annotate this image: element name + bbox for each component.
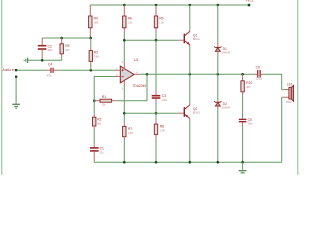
wire opamp Vminus column <box>123 86 125 123</box>
svg-text:C1: C1 <box>100 147 104 151</box>
svg-text:100k: 100k <box>94 23 100 25</box>
svg-text:C4: C4 <box>48 63 52 67</box>
wire R7 to bottom bus <box>123 140 125 162</box>
svg-text:1N4148: 1N4148 <box>222 108 231 110</box>
capacitor C3 <box>152 89 168 103</box>
svg-text:R2: R2 <box>97 118 101 122</box>
svg-text:Audio in: Audio in <box>3 68 15 72</box>
pin 4 output <box>134 72 139 74</box>
diode D1 <box>214 43 230 55</box>
pin 2 inverting input <box>116 75 121 77</box>
wire audio gnd stub <box>15 78 17 104</box>
power pin +VCC pad <box>248 4 251 7</box>
svg-text:R8: R8 <box>160 125 164 129</box>
wire R10 to C5 <box>242 95 244 118</box>
wire D2 to bottom bus <box>217 110 219 163</box>
wire audio input to C4 <box>17 69 47 71</box>
node junction C3 R8 Q2 base <box>155 112 158 115</box>
wire C4 to opamp noninverting input <box>58 69 116 71</box>
op-amp U1 <box>120 58 146 88</box>
wire C6 to speaker corner <box>263 74 281 89</box>
svg-text:D1: D1 <box>223 47 227 51</box>
svg-text:R9: R9 <box>159 16 163 20</box>
svg-text:Q2: Q2 <box>193 107 198 111</box>
wire R9 column down crossing output <box>155 40 157 89</box>
wire C5 to bottom bus <box>242 126 244 162</box>
wire D1 to output bus <box>217 55 219 74</box>
wire D2 column from output bus <box>217 74 219 101</box>
svg-text:C3: C3 <box>162 94 166 98</box>
node junction R3 bottom on audio wire <box>90 69 93 72</box>
capacitor C4 <box>47 63 58 78</box>
node junction R1 R2 inverting <box>93 99 96 102</box>
wire Q1 emitter to output bus <box>189 47 191 74</box>
svg-text:100n: 100n <box>248 124 254 126</box>
resistor R6 <box>123 5 133 40</box>
wire feedback vertical drop <box>146 74 148 100</box>
svg-text:TDA2040: TDA2040 <box>132 84 146 88</box>
resistor R1 <box>94 95 115 107</box>
svg-text:R1: R1 <box>102 95 106 99</box>
node junction Q2 bottom <box>189 161 192 164</box>
capacitor C6 <box>254 65 263 80</box>
svg-text:4R7: 4R7 <box>246 87 251 89</box>
svg-text:R10: R10 <box>246 81 252 85</box>
svg-text:R4: R4 <box>94 16 98 20</box>
svg-text:D2: D2 <box>223 102 227 106</box>
wire speaker return to bottom bus <box>281 97 283 162</box>
speaker LS1 <box>282 82 294 104</box>
resistor R10 <box>241 74 253 95</box>
svg-text:C6: C6 <box>256 65 260 69</box>
wire R2 to C1 <box>93 130 95 145</box>
capacitor C2 <box>38 38 54 60</box>
svg-text:470n: 470n <box>47 76 53 78</box>
resistor R3 <box>89 38 100 70</box>
node junction zobel R10 <box>241 73 244 76</box>
svg-text:R7: R7 <box>128 127 132 131</box>
transistor Q1 <box>179 29 201 47</box>
wire Q2 bottom to bottom bus <box>189 121 191 162</box>
resistor R8 <box>154 120 165 138</box>
node junction R4 R3 midpoint <box>90 37 93 40</box>
svg-text:1.5R: 1.5R <box>128 133 133 135</box>
svg-text:C5: C5 <box>248 118 252 122</box>
ground bottom right <box>239 162 247 173</box>
wire Q2 top to output bus <box>189 74 191 103</box>
svg-text:1N4148: 1N4148 <box>222 53 231 55</box>
node junction R8 bottom <box>155 161 158 164</box>
wire base drive row R6 R9 to Q1 base <box>124 39 179 41</box>
svg-text:1.5R: 1.5R <box>160 131 165 133</box>
node junction feedback tap <box>146 73 149 76</box>
diode D2 <box>214 101 230 110</box>
connector pin pad signal <box>15 69 17 71</box>
ground bottom left <box>12 104 20 109</box>
resistor R4 <box>89 5 100 38</box>
svg-text:BD912: BD912 <box>193 112 201 114</box>
wire output bus <box>139 73 254 75</box>
transistor Q2 <box>179 103 201 121</box>
capacitor C1 <box>90 144 104 162</box>
resistor R7 <box>123 123 134 141</box>
wire C3 to Q2 base node <box>155 103 157 120</box>
svg-text:LS1: LS1 <box>287 82 293 86</box>
svg-text:4Ohm: 4Ohm <box>286 102 292 104</box>
svg-text:R3: R3 <box>94 51 98 55</box>
node junction R9 top <box>155 4 158 7</box>
node junction D1 D2 <box>217 73 220 76</box>
svg-text:100u: 100u <box>162 100 168 102</box>
node junction D2 bottom <box>217 161 220 164</box>
wire D1 column from top bus <box>217 5 219 43</box>
resistor R5 <box>60 38 70 60</box>
svg-text:+VCC: +VCC <box>246 0 256 2</box>
node junction R5 top <box>60 37 63 40</box>
node junction D1 top <box>217 4 220 7</box>
resistor R2 <box>93 114 102 130</box>
wire inverting input column <box>94 77 115 114</box>
node junction R7 bottom <box>123 161 126 164</box>
ground left rotated <box>24 58 29 63</box>
capacitor C5 <box>239 118 254 126</box>
frame border right <box>297 0 298 175</box>
node junction R6 bottom <box>123 39 126 42</box>
wire feedback horizontal to R1 <box>116 100 147 102</box>
node junction C2 bottom <box>41 59 44 62</box>
svg-text:Q1: Q1 <box>193 33 198 37</box>
wire Q1 collector to top bus <box>189 5 191 29</box>
pin 5 positive supply <box>122 62 125 68</box>
pin 1 noninverting input <box>116 69 121 71</box>
wire opamp V+ to R6 node <box>123 40 125 62</box>
wire Q2 base row <box>124 112 179 114</box>
node junction Q1 Q2 emitters <box>189 73 192 76</box>
wire top supply bus <box>90 4 249 6</box>
connector pin pad ground <box>15 76 17 78</box>
frame border left <box>1 0 2 175</box>
node junction Q1 collector top <box>189 4 192 7</box>
svg-text:U1: U1 <box>134 58 138 62</box>
wire R8 to bottom bus <box>155 138 157 162</box>
svg-text:R5: R5 <box>65 44 69 48</box>
svg-text:C2: C2 <box>48 44 52 48</box>
node junction R9 bottom <box>155 39 158 42</box>
wire bias decouple row <box>28 59 62 61</box>
svg-text:R6: R6 <box>128 16 132 20</box>
wire bottom bus <box>94 161 282 163</box>
svg-text:2200u: 2200u <box>256 79 263 81</box>
svg-text:100u: 100u <box>48 50 54 52</box>
svg-text:100k: 100k <box>94 57 100 59</box>
resistor R9 <box>154 5 164 40</box>
node junction ground tap <box>241 161 244 164</box>
wire bias row C2 R5 to R4/R3 junction <box>42 37 91 39</box>
svg-text:BD911: BD911 <box>193 39 201 41</box>
pin 3 negative supply <box>122 80 125 90</box>
node junction R6 top <box>123 4 126 7</box>
node junction R7 Q2 base row <box>123 112 126 115</box>
